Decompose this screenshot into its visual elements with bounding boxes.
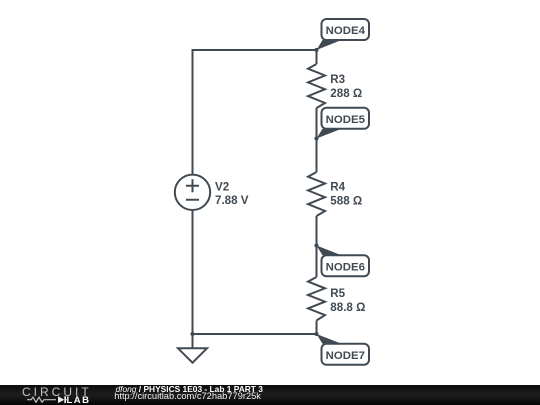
svg-text:V2: V2 [215,180,229,193]
svg-text:NODE4: NODE4 [326,25,366,37]
svg-text:NODE6: NODE6 [326,261,365,273]
svg-text:R5: R5 [330,287,345,300]
svg-text:7.88 V: 7.88 V [215,194,249,207]
svg-text:R3: R3 [330,73,345,86]
svg-text:88.8 Ω: 88.8 Ω [330,301,365,314]
svg-text:NODE5: NODE5 [326,114,366,126]
svg-text:R4: R4 [330,181,345,194]
svg-text:NODE7: NODE7 [326,350,365,362]
svg-text:288 Ω: 288 Ω [330,87,362,100]
svg-text:588 Ω: 588 Ω [330,194,362,207]
svg-text:LAB: LAB [67,395,91,405]
